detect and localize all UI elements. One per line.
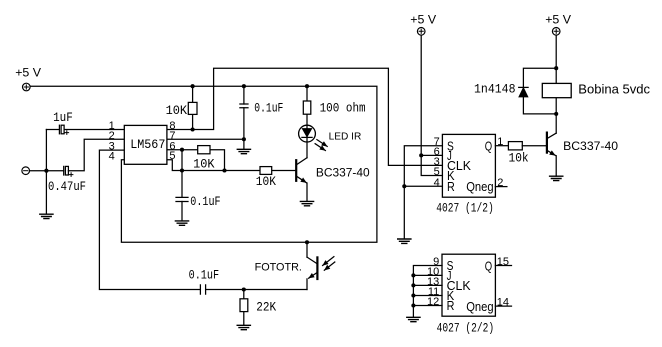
wire pin 3 drop to bottom wire [99,150,200,289]
svg-text:100 ohm: 100 ohm [320,101,366,116]
light arrows into FOTOTR [323,257,334,266]
wire base wire right part to Q1 base [272,170,297,172]
ground S1/R1 4027 (1/2) [398,239,411,243]
junction R1 input on ground drop [402,184,406,188]
IC U1 LM567 box [124,125,167,164]
resistor R2 10K parallel [198,146,210,154]
ground R5 22K [237,325,250,329]
IC U2 4027 (1/2) box [442,134,495,197]
junction FOTOTR collector on V+ wire [305,240,309,244]
transistor Q1 BC337-40 left [296,158,307,201]
svg-text:0.1uF: 0.1uF [254,100,283,115]
svg-text:LM567: LM567 [130,137,165,152]
junction base wire / C4 branch [180,168,184,172]
diode D2 1n4148 [519,87,528,96]
wire vertical input bus to ground [45,130,47,214]
capacitor C1 1uF electrolytic [59,125,68,134]
svg-text:10K: 10K [256,174,276,189]
wire J1 and K1 tie to +5V [421,35,442,175]
svg-text:0.1uF: 0.1uF [189,268,220,283]
wire input minus terminal lead [30,170,64,172]
svg-text:+5 V: +5 V [410,12,437,26]
svg-text:4027 (1/2): 4027 (1/2) [436,201,494,216]
svg-text:10K: 10K [166,103,188,118]
wire 10K R2 right lead down to base wire [210,150,225,171]
junction R3 top on +5V rail [305,84,309,88]
wire 10K R2 left lead [182,149,198,151]
wire Q1 output to 10k [495,145,508,147]
relay coil K1 Bobina 5vdc [542,83,571,97]
svg-text:BC337-40: BC337-40 [563,139,618,153]
svg-text:14: 14 [497,297,509,309]
junction relay bottom / diode [554,112,558,116]
junction R1 bottom pin 8 [191,127,195,131]
LED D1 LED IR [299,125,316,158]
junction relay top / diode [554,66,558,70]
resistor R5 22K [240,290,248,326]
svg-text:10K: 10K [193,157,215,172]
resistor R4 10K base [260,167,272,175]
svg-text:LED IR: LED IR [329,131,362,143]
svg-text:2: 2 [497,177,503,189]
svg-text:12: 12 [427,296,439,308]
light arrows out of LED [317,140,327,147]
svg-text:Qneg: Qneg [466,180,493,194]
terminal +5V middle [417,28,425,36]
ground 4027 (2/2) inputs [407,317,420,321]
wire diode loop [523,68,556,114]
svg-text:0.1uF: 0.1uF [190,194,220,209]
wire Qneg2 stub pin 14 [495,305,511,307]
wire pin 6 lead [167,149,182,151]
wire +5V right down to relay [555,35,557,83]
ground Q1 emitter [300,201,313,205]
capacitor C2 0.47uF electrolytic [64,166,73,176]
wire FOTOTR collector tap [306,242,308,257]
svg-text:22K: 22K [256,300,276,315]
IC U3 4027 (2/2) box [442,254,495,316]
transistor Q3 BC337-40 right [547,98,556,176]
resistor R3 100 ohm [303,86,311,125]
svg-text:0.47uF: 0.47uF [48,179,86,194]
junction R1 top on +5V rail [191,84,195,88]
wire 10k to Q3 base [522,145,547,147]
ground C4 [175,221,188,225]
wire pin 1 lead [64,129,124,131]
junction pin 7 / C3 [242,137,246,141]
ground C3 [237,149,250,153]
svg-text:4: 4 [434,177,440,189]
svg-text:1: 1 [497,136,503,148]
svg-text:Q: Q [485,259,493,273]
svg-text:FOTOTR.: FOTOTR. [255,262,302,274]
capacitor C5 0.1uF plates [200,285,205,294]
svg-text:+5 V: +5 V [15,66,42,80]
capacitor C4 0.1uF plates [176,197,188,201]
svg-text:4: 4 [109,150,115,162]
svg-text:5: 5 [169,150,175,162]
svg-text:R: R [447,180,455,194]
svg-text:4027 (2/2): 4027 (2/2) [437,320,495,335]
svg-text:Bobina 5vdc: Bobina 5vdc [578,82,650,96]
svg-text:BC337-40: BC337-40 [316,165,370,179]
ground Q3 emitter [550,176,563,180]
junction CLK2 on ground bus [411,283,415,287]
wire pin6 branch down to C4 [181,150,183,198]
svg-text:1n4148: 1n4148 [474,82,516,97]
junction input node [44,169,48,173]
ground input bus [40,214,53,218]
terminal +5V left [23,83,31,91]
wire S1 and R1 tie to ground [404,146,442,239]
junction R2 input on ground bus [411,303,415,307]
wire 4027 (2/2) inputs tie to ground [413,266,442,318]
wire C1 left lead [46,129,59,131]
wire Q2 stub pin 15 [495,265,511,267]
svg-text:+5 V: +5 V [545,12,572,26]
junction pin 6 / R2 [180,148,184,152]
junction J2 on ground bus [411,273,415,277]
resistor R6 10k [508,142,522,150]
junction C3 top on +5V rail [242,84,246,88]
junction K2 on ground bus [411,293,415,297]
junction C5 / R5 node [242,287,246,291]
svg-text:Q: Q [485,140,493,154]
svg-text:R: R [447,299,455,313]
junction base wire / R2 right [222,168,226,172]
wire Qneg1 stub pin 2 [495,186,507,188]
svg-text:15: 15 [497,256,509,268]
wire pin 5 jog and base wire left part [167,160,260,171]
terminal +5V right [552,28,560,36]
wire C4 to ground [181,202,183,221]
capacitor C3 0.1uF top [240,86,248,149]
junction J1 on +5V drop [419,153,423,157]
transistor Q2 FOTOTR [307,257,317,289]
svg-text:Qneg: Qneg [466,300,493,314]
wire +5V rail to V+ loop (pin 4 LM567 / FOTOTR collector) [30,86,377,242]
wire pin8 LM567 to CLK 4027 (1/2) [167,68,443,165]
resistor R1 10K pull-up [188,86,197,129]
svg-text:10k: 10k [509,151,529,166]
wire pin 7 lead [167,138,244,140]
terminal input minus [22,167,30,175]
wire bottom wire right part [206,289,307,291]
wire C2 right lead up to pin 2 [68,139,124,170]
svg-text:1uF: 1uF [53,110,73,125]
